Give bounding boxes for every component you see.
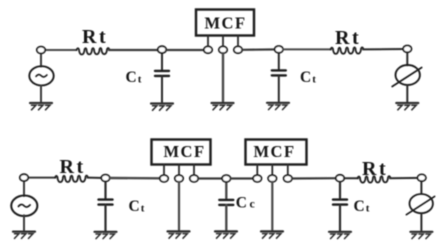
wire input node to source <box>23 180 25 196</box>
wire U3 pin3 to Ct2 node <box>292 177 340 180</box>
wire meter to ground <box>420 214 422 231</box>
wire Ct2 node to resistor <box>283 48 331 50</box>
wire Ct node down to capacitor <box>161 50 163 70</box>
wire output node down to meter <box>420 180 422 194</box>
ground (top Ct2) <box>267 103 289 110</box>
svg-text:Ct: Ct <box>300 69 316 86</box>
node (top Ct2) <box>275 46 283 53</box>
svg-text:MCF: MCF <box>204 14 246 33</box>
svg-text:Ct: Ct <box>129 198 145 215</box>
wire U1 pin3 to Ct2 node <box>242 48 279 51</box>
pin stub U3 pin3 <box>287 165 289 176</box>
pin stub U2 pin1 <box>163 165 165 176</box>
node (bottom input) <box>20 174 28 181</box>
capacitor Ct (top right) <box>272 70 286 75</box>
wire meter to ground <box>406 85 408 103</box>
wire source to ground <box>40 85 42 102</box>
wire Ct1 node to MCF1 pin1 <box>110 177 160 180</box>
capacitor Ct (bottom right) <box>333 200 347 205</box>
node (top Ct1) <box>158 46 166 53</box>
wire Cc node down to capacitor <box>225 179 227 200</box>
ground (bottom source) <box>13 232 35 239</box>
pin stub U3 pin2 <box>271 165 273 176</box>
node (bottom output) <box>418 174 426 181</box>
svg-text:MCF: MCF <box>163 142 205 161</box>
wire U2 pin2 to ground <box>178 182 180 231</box>
resistor Rt (top right) <box>331 47 364 54</box>
ground (top meter) <box>396 103 418 110</box>
meter M2 (bottom) <box>406 194 434 215</box>
svg-text:Ct: Ct <box>126 69 142 86</box>
wire U3 pin2 to ground <box>271 182 273 231</box>
terminal U2 pin1 <box>160 175 168 182</box>
ground (bottom meter) <box>410 232 432 239</box>
svg-text:Cc: Cc <box>236 195 256 212</box>
AC source G2 <box>11 196 37 217</box>
wire resistor to output node <box>390 177 422 179</box>
ground (bottom Ct2) <box>329 232 351 239</box>
terminal U3 pin1 <box>253 175 261 182</box>
wire Cc node to MCF2 pin1 <box>231 177 253 179</box>
pin stub U2 pin2 <box>178 165 180 176</box>
terminal U1 pin2 <box>219 46 227 53</box>
wire resistor to Ct node <box>109 49 162 51</box>
MCF U2 box <box>152 140 211 165</box>
resistor Rt (bottom right) <box>358 176 391 183</box>
MCF U3 box <box>246 140 307 165</box>
wire capacitor to ground <box>161 76 163 102</box>
svg-text:Rt: Rt <box>60 156 86 178</box>
ground (Cc) <box>215 231 237 238</box>
terminal U3 pin3 <box>284 175 292 182</box>
wire resistor to Ct1 node <box>88 177 106 179</box>
svg-text:Ct: Ct <box>354 198 370 215</box>
terminal U2 pin2 <box>175 175 183 182</box>
AC source G1 <box>29 66 53 85</box>
resistor Rt (top left) <box>77 48 110 55</box>
svg-text:MCF: MCF <box>253 142 295 161</box>
wire capacitor to ground <box>225 205 227 231</box>
node (bottom Ct1) <box>101 175 109 182</box>
terminal U3 pin2 <box>268 175 276 182</box>
terminal U1 pin1 <box>204 46 212 53</box>
pin stub U1 pin2 <box>222 36 224 47</box>
node (top output) <box>403 46 411 53</box>
node (top input) <box>37 47 45 54</box>
capacitor Cc <box>219 200 233 205</box>
svg-text:Rt: Rt <box>82 26 108 48</box>
wire U1 pin2 to ground <box>222 53 224 102</box>
terminal U2 pin3 <box>190 175 198 182</box>
ground (top Ct1) <box>151 104 173 111</box>
wire capacitor to ground <box>104 205 106 231</box>
wire input node to source <box>40 52 42 67</box>
wire node to resistor <box>41 49 77 51</box>
MCF U1 box <box>196 10 254 36</box>
capacitor Ct (bottom left) <box>99 200 113 205</box>
wire Ct node to MCF pin1 <box>166 49 204 51</box>
pin stub U1 pin1 <box>207 36 209 47</box>
wire output node down to meter <box>406 51 408 65</box>
capacitor Ct (top left) <box>155 71 169 76</box>
pin stub U2 pin3 <box>193 165 195 176</box>
wire capacitor to ground <box>339 205 341 231</box>
ground (bottom Ct1) <box>95 232 117 239</box>
resistor Rt (bottom left) <box>55 176 88 183</box>
wire U2 pin3 to Cc node <box>198 177 226 179</box>
svg-text:Rt: Rt <box>362 158 388 180</box>
wire source to ground <box>23 215 25 231</box>
ground (bottom MCF1) <box>168 231 190 238</box>
ground (top MCF) <box>212 103 234 110</box>
svg-text:Rt: Rt <box>335 27 361 49</box>
terminal U1 pin3 <box>234 46 242 53</box>
pin stub U1 pin3 <box>237 36 239 47</box>
ground (top source) <box>30 103 52 110</box>
node (bottom Ct2) <box>336 175 344 182</box>
pin stub U3 pin1 <box>256 165 258 176</box>
ground (bottom MCF2) <box>261 231 283 238</box>
wire resistor to output node <box>363 48 407 50</box>
node (Cc) <box>222 175 230 182</box>
meter M1 (top) <box>392 65 422 87</box>
wire Ct2 node down to capacitor <box>339 178 341 199</box>
wire Ct1 node down to capacitor <box>104 178 106 199</box>
wire capacitor to ground <box>278 76 280 102</box>
wire Ct2 node down to capacitor <box>278 50 280 70</box>
wire node to resistor <box>24 177 56 179</box>
wire Ct2 node to resistor <box>344 177 358 179</box>
